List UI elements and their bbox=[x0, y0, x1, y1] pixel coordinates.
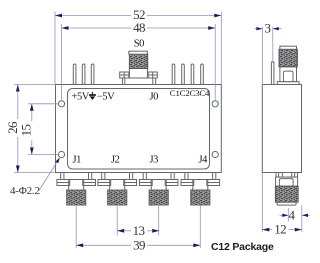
dimension 26 bbox=[14, 85, 56, 173]
svg-text:3: 3 bbox=[264, 21, 270, 36]
connector S0 cap bbox=[129, 51, 148, 54]
connector J1 pin bbox=[75, 205, 77, 248]
side view top connector base bbox=[277, 82, 299, 85]
dimension 13 bbox=[117, 230, 159, 232]
connector S0 base bbox=[122, 78, 155, 85]
dimension 4 bbox=[280, 208, 310, 222]
svg-text:+5V: +5V bbox=[72, 92, 90, 103]
svg-text:J2: J2 bbox=[111, 155, 120, 166]
connector J3 bbox=[139, 173, 178, 206]
connector J3 pin bbox=[158, 205, 160, 236]
connector S0 neck bbox=[129, 69, 147, 79]
dimension 3 bbox=[255, 27, 282, 84]
body outline front view bbox=[56, 85, 222, 173]
dimension 15 bbox=[28, 104, 59, 155]
dimension 39 bbox=[76, 244, 200, 246]
dimension 12 bbox=[262, 173, 302, 233]
svg-text:C12 Package: C12 Package bbox=[211, 241, 274, 253]
connector J4 pin bbox=[199, 205, 201, 248]
svg-text:J1: J1 bbox=[73, 155, 82, 166]
side view bottom connector nut bbox=[276, 177, 298, 186]
mounting hole top-left bbox=[58, 101, 64, 107]
connector J2 pin bbox=[116, 205, 118, 236]
side view dc pin bbox=[271, 62, 274, 85]
svg-text:39: 39 bbox=[133, 237, 145, 252]
control pin C3 bbox=[191, 64, 194, 85]
svg-text:S0: S0 bbox=[134, 39, 144, 50]
side view top connector knurl bbox=[279, 49, 297, 67]
svg-text:13: 13 bbox=[133, 223, 145, 238]
svg-text:26: 26 bbox=[5, 121, 20, 134]
svg-text:15: 15 bbox=[19, 125, 34, 137]
connector J2 bbox=[98, 173, 137, 206]
control pin C2 bbox=[182, 64, 185, 85]
side view bottom connector tip bbox=[277, 202, 296, 205]
svg-text:J3: J3 bbox=[150, 155, 159, 166]
mounting hole top-right bbox=[212, 101, 218, 107]
dimension 52 bbox=[55, 12, 221, 85]
cover plate rounded rect bbox=[68, 89, 210, 170]
svg-text:C1C2C3C4: C1C2C3C4 bbox=[170, 88, 210, 98]
svg-text:12: 12 bbox=[274, 222, 286, 237]
side view bottom connector flange bbox=[276, 173, 298, 178]
connector J4 bbox=[181, 173, 220, 206]
hole callout 4-dia2.2 bbox=[39, 159, 59, 191]
control pin C1 bbox=[172, 64, 175, 85]
side view bottom connector knurl bbox=[275, 186, 298, 202]
side view top connector nut bbox=[280, 67, 297, 82]
svg-text:J0: J0 bbox=[150, 92, 159, 103]
svg-text:4: 4 bbox=[289, 207, 296, 222]
svg-text:J4: J4 bbox=[199, 155, 209, 166]
ground symbol bbox=[89, 92, 96, 95]
svg-text:4-Φ2.2: 4-Φ2.2 bbox=[10, 185, 40, 197]
side view top connector cap bbox=[280, 46, 297, 49]
side view body bbox=[262, 85, 301, 173]
control pin C4 bbox=[201, 64, 204, 85]
dc pin 3 (-5V) bbox=[91, 64, 94, 85]
dimension 48 bbox=[62, 24, 216, 101]
dc pin 2 (gnd) bbox=[82, 64, 85, 85]
connector S0 knurl bbox=[129, 54, 147, 68]
mounting hole bottom-left bbox=[58, 151, 64, 157]
connector S0 nut bbox=[120, 72, 158, 78]
connector J1 bbox=[57, 173, 96, 206]
dc pin 1 (+5V) bbox=[73, 64, 76, 85]
svg-text:−5V: −5V bbox=[97, 92, 115, 103]
svg-text:48: 48 bbox=[133, 20, 145, 35]
mounting hole bottom-right bbox=[212, 151, 218, 157]
